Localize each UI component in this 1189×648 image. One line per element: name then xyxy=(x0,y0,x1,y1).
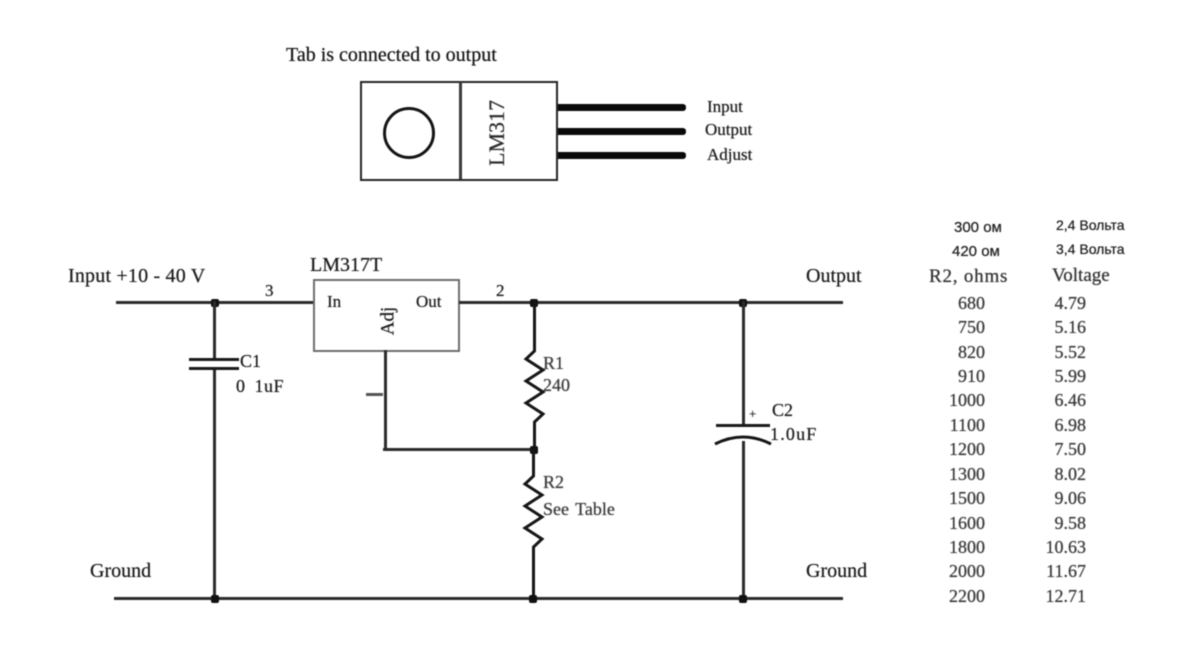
pin lead Output xyxy=(558,128,686,135)
pin lead Input xyxy=(558,104,686,111)
pin number 3 xyxy=(265,282,274,299)
value 0 1uF xyxy=(236,377,284,395)
node: R2 / ground xyxy=(529,595,537,603)
wire: ground rail xyxy=(114,597,843,600)
TO-220 package body xyxy=(360,81,558,181)
capacitor C1 plates xyxy=(189,358,239,361)
table rows xyxy=(885,294,985,312)
net label Input +10 - 40 V xyxy=(68,266,205,286)
pin label Input xyxy=(707,98,743,115)
node: out / R1 junction xyxy=(530,299,538,307)
value 240 xyxy=(543,376,570,394)
wire: C2 bottom xyxy=(742,441,745,598)
value 1.0uF xyxy=(770,425,818,443)
wire: C1 top xyxy=(213,301,216,360)
capacitor C2 top plate xyxy=(716,424,770,427)
table note: 3,4 Volta xyxy=(1056,242,1125,256)
net label Ground (right) xyxy=(806,561,867,581)
TO-220 tab divider xyxy=(459,82,462,179)
pin lead Adjust xyxy=(558,152,686,159)
node: input / C1 junction xyxy=(211,299,219,307)
polarity + xyxy=(749,407,756,420)
net label Ground (left) xyxy=(90,561,151,581)
capacitor C2 bottom plate (arc) xyxy=(713,429,773,449)
wire: Adj to R1/R2 node xyxy=(383,448,534,451)
node: C1 / ground xyxy=(211,595,219,603)
table header: R2, ohms / Voltage xyxy=(929,267,1008,286)
table note: 420 om xyxy=(952,244,1000,259)
value See Table xyxy=(543,500,615,518)
pin label Adjust xyxy=(707,146,752,163)
pin number 2 xyxy=(496,282,505,299)
pin label In xyxy=(327,293,341,310)
tick mark near Adj wire xyxy=(366,393,383,396)
net label Output xyxy=(806,266,862,286)
pin label Adj (rotated) xyxy=(379,307,398,336)
label LM317 (rotated, on package) xyxy=(486,100,508,166)
resistor R2 (zigzag) xyxy=(518,449,548,599)
table note: 300 om xyxy=(954,220,1002,235)
regulator U1 LM317T box xyxy=(313,279,460,352)
table note: 2,4 Volta xyxy=(1056,218,1125,232)
node: out / C2 junction xyxy=(739,299,747,307)
label LM317T xyxy=(310,255,382,275)
node: Adj / R1 / R2 junction xyxy=(530,446,538,454)
wire: input to regulator In pin xyxy=(116,301,315,304)
wire: regulator Out to output node xyxy=(459,301,843,304)
resistor R1 (zigzag) xyxy=(519,301,549,451)
pin label Out xyxy=(416,293,442,310)
node: C2 / ground xyxy=(739,595,747,603)
pin label Output xyxy=(705,121,752,138)
wire: C1 bottom xyxy=(213,370,216,598)
label C1 xyxy=(240,352,261,370)
label R2 xyxy=(543,473,564,491)
TO-220 mounting hole xyxy=(380,104,438,162)
label C2 xyxy=(772,401,793,419)
wire: Adj pin down xyxy=(384,350,387,450)
caption: Tab is connected to output xyxy=(286,45,497,65)
wire: C2 top xyxy=(742,301,745,425)
label R1 xyxy=(543,354,564,372)
